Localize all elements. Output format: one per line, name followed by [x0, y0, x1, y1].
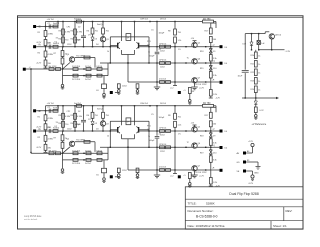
svg-text:D2 D4: D2 D4 — [85, 66, 92, 68]
svg-text:R2 750: R2 750 — [203, 19, 211, 21]
svg-text:8.2k: 8.2k — [213, 182, 217, 184]
svg-text:-5.2V: -5.2V — [215, 98, 220, 100]
svg-text:C8H D4: C8H D4 — [140, 103, 149, 105]
svg-text:D2: D2 — [78, 111, 80, 113]
svg-text:D2 D4: D2 D4 — [85, 151, 92, 153]
svg-text:Set/Q1: Set/Q1 — [97, 108, 104, 111]
svg-text:GD: GD — [237, 162, 241, 164]
svg-text:1.2k: 1.2k — [178, 40, 182, 42]
svg-text:100pF: 100pF — [159, 33, 165, 35]
svg-text:Q8 D4: Q8 D4 — [275, 35, 282, 37]
svg-text:Dual Flip Flop 5288: Dual Flip Flop 5288 — [229, 192, 259, 196]
svg-text:D3 D4: D3 D4 — [97, 66, 104, 68]
svg-text:1%: 1% — [56, 38, 59, 40]
svg-text:D6: D6 — [192, 91, 194, 93]
svg-text:D6: D6 — [192, 176, 194, 178]
svg-text:Document Number:: Document Number: — [188, 209, 214, 213]
svg-text:D11 D4: D11 D4 — [159, 79, 167, 81]
svg-text:-5.2V: -5.2V — [199, 88, 204, 90]
svg-text:+12V: +12V — [248, 141, 254, 143]
svg-text:R21: R21 — [251, 64, 254, 66]
svg-text:1.2k: 1.2k — [178, 124, 182, 126]
svg-text:D4 D4: D4 D4 — [85, 79, 92, 81]
svg-text:D8 D4: D8 D4 — [160, 19, 167, 21]
svg-text:+5: +5 — [183, 90, 185, 92]
svg-text:R22: R22 — [251, 72, 254, 74]
svg-text:D12: D12 — [243, 44, 246, 46]
svg-text:1k: 1k — [258, 73, 260, 75]
svg-text:1%: 1% — [178, 133, 181, 135]
svg-text:Set/D4: Set/D4 — [74, 18, 81, 21]
svg-text:1%: 1% — [56, 122, 59, 124]
svg-text:1k: 1k — [258, 56, 260, 58]
svg-text:100pF: 100pF — [149, 56, 156, 58]
svg-text:750 OHM: 750 OHM — [76, 55, 85, 57]
svg-text:-1.3V: -1.3V — [285, 51, 291, 53]
svg-text:-/A: -/A — [38, 44, 41, 47]
svg-text:750 OHM: 750 OHM — [76, 140, 85, 142]
svg-text:+V Reference: +V Reference — [252, 123, 267, 126]
svg-text:D2 12D4: D2 12D4 — [72, 79, 81, 81]
svg-text:+5V D4 12D2: +5V D4 12D2 — [194, 172, 207, 174]
svg-text:+5V D4: +5V D4 — [47, 19, 55, 21]
svg-text:4.99k: 4.99k — [48, 34, 54, 36]
svg-text:+5V D4 12D2: +5V D4 12D2 — [194, 84, 207, 86]
svg-text:D1 12D4: D1 12D4 — [72, 66, 81, 68]
svg-text:D11 D4: D11 D4 — [159, 167, 167, 169]
svg-text:100pF: 100pF — [159, 117, 165, 119]
svg-text:C8H D4: C8H D4 — [140, 19, 149, 21]
svg-text:CP2: CP2 — [67, 27, 71, 29]
svg-text:REV:: REV: — [286, 209, 293, 213]
svg-text:CP2: CP2 — [67, 111, 71, 113]
svg-text:not the default: not the default — [24, 218, 38, 221]
svg-text:-5.2V: -5.2V — [36, 63, 42, 65]
svg-text:D2: D2 — [55, 42, 57, 44]
svg-text:D4 D4: D4 D4 — [85, 163, 92, 165]
svg-text:D1 12D4: D1 12D4 — [72, 151, 81, 153]
svg-text:R2 750: R2 750 — [203, 103, 211, 105]
svg-text:D3 D4: D3 D4 — [97, 151, 104, 153]
svg-text:TITLE:: TITLE: — [188, 202, 197, 206]
svg-text:D4: D4 — [96, 129, 98, 131]
svg-text:1%: 1% — [88, 119, 91, 121]
svg-text:Sheet: 1/1: Sheet: 1/1 — [273, 224, 287, 228]
svg-text:-Q: -Q — [212, 129, 215, 131]
svg-text:-5.2V: -5.2V — [259, 110, 264, 112]
svg-text:4.99k: 4.99k — [48, 118, 54, 120]
svg-text:+Q: +Q — [212, 145, 215, 147]
svg-text:3.3k: 3.3k — [213, 75, 217, 77]
svg-text:+5: +5 — [183, 175, 185, 177]
svg-text:CP4 D4: CP4 D4 — [159, 144, 167, 146]
svg-text:-5.2V: -5.2V — [248, 183, 254, 185]
svg-text:R20: R20 — [251, 55, 254, 57]
svg-text:-5.2V: -5.2V — [199, 176, 204, 178]
svg-text:R23: R23 — [251, 81, 254, 83]
svg-text:1k: 1k — [258, 64, 260, 66]
svg-text:D8 D4: D8 D4 — [160, 103, 167, 105]
svg-text:-/E: -/E — [38, 110, 41, 113]
svg-text:1k: 1k — [258, 90, 260, 92]
svg-text:CP3 D4: CP3 D4 — [159, 43, 167, 45]
svg-text:8.2k: 8.2k — [213, 94, 217, 96]
svg-text:GND: GND — [254, 173, 259, 175]
svg-text:1k: 1k — [258, 81, 260, 83]
svg-text:R24: R24 — [251, 89, 254, 91]
svg-text:-Q: -Q — [212, 44, 215, 46]
svg-text:D2: D2 — [55, 126, 57, 128]
svg-text:Set/D4: Set/D4 — [53, 22, 60, 25]
svg-text:D2 12D4: D2 12D4 — [72, 163, 81, 165]
svg-text:Loop RUNS date: Loop RUNS date — [24, 215, 42, 218]
svg-text:1%: 1% — [88, 35, 91, 37]
svg-text:+5V D4: +5V D4 — [47, 103, 55, 105]
svg-text:0H 12D2: 0H 12D2 — [49, 151, 58, 153]
svg-text:Set/Q1: Set/Q1 — [97, 23, 104, 26]
svg-text:12D2: 12D2 — [67, 129, 72, 131]
svg-text:1k: 1k — [107, 51, 109, 53]
svg-text:100pF: 100pF — [75, 124, 82, 126]
svg-text:B-CS-5288-0-0: B-CS-5288-0-0 — [196, 215, 218, 219]
svg-text:5288X: 5288X — [206, 202, 215, 206]
svg-text:100pF: 100pF — [149, 140, 156, 142]
svg-text:10uF: 10uF — [238, 76, 243, 78]
svg-text:12D2: 12D2 — [67, 44, 72, 46]
svg-text:3.3k: 3.3k — [213, 159, 217, 161]
svg-text:1%: 1% — [178, 49, 181, 51]
svg-text:0H 12D2: 0H 12D2 — [49, 66, 58, 68]
svg-text:1k: 1k — [107, 135, 109, 137]
svg-text:D2: D2 — [78, 27, 80, 29]
svg-text:Date: 10/28/2012 11:52:51a: Date: 10/28/2012 11:52:51a — [188, 224, 225, 228]
svg-text:-/A: -/A — [38, 128, 41, 131]
svg-text:CP4 D4: CP4 D4 — [159, 60, 167, 62]
svg-text:D4: D4 — [96, 44, 98, 46]
svg-text:-/E: -/E — [38, 26, 41, 29]
svg-text:CP3 D4: CP3 D4 — [159, 128, 167, 130]
svg-text:100pF: 100pF — [75, 40, 82, 42]
svg-text:-5.2V: -5.2V — [36, 147, 42, 149]
svg-text:Set/D4: Set/D4 — [53, 107, 60, 110]
svg-text:+Q: +Q — [212, 61, 215, 63]
svg-text:Set/D4: Set/D4 — [74, 102, 81, 105]
